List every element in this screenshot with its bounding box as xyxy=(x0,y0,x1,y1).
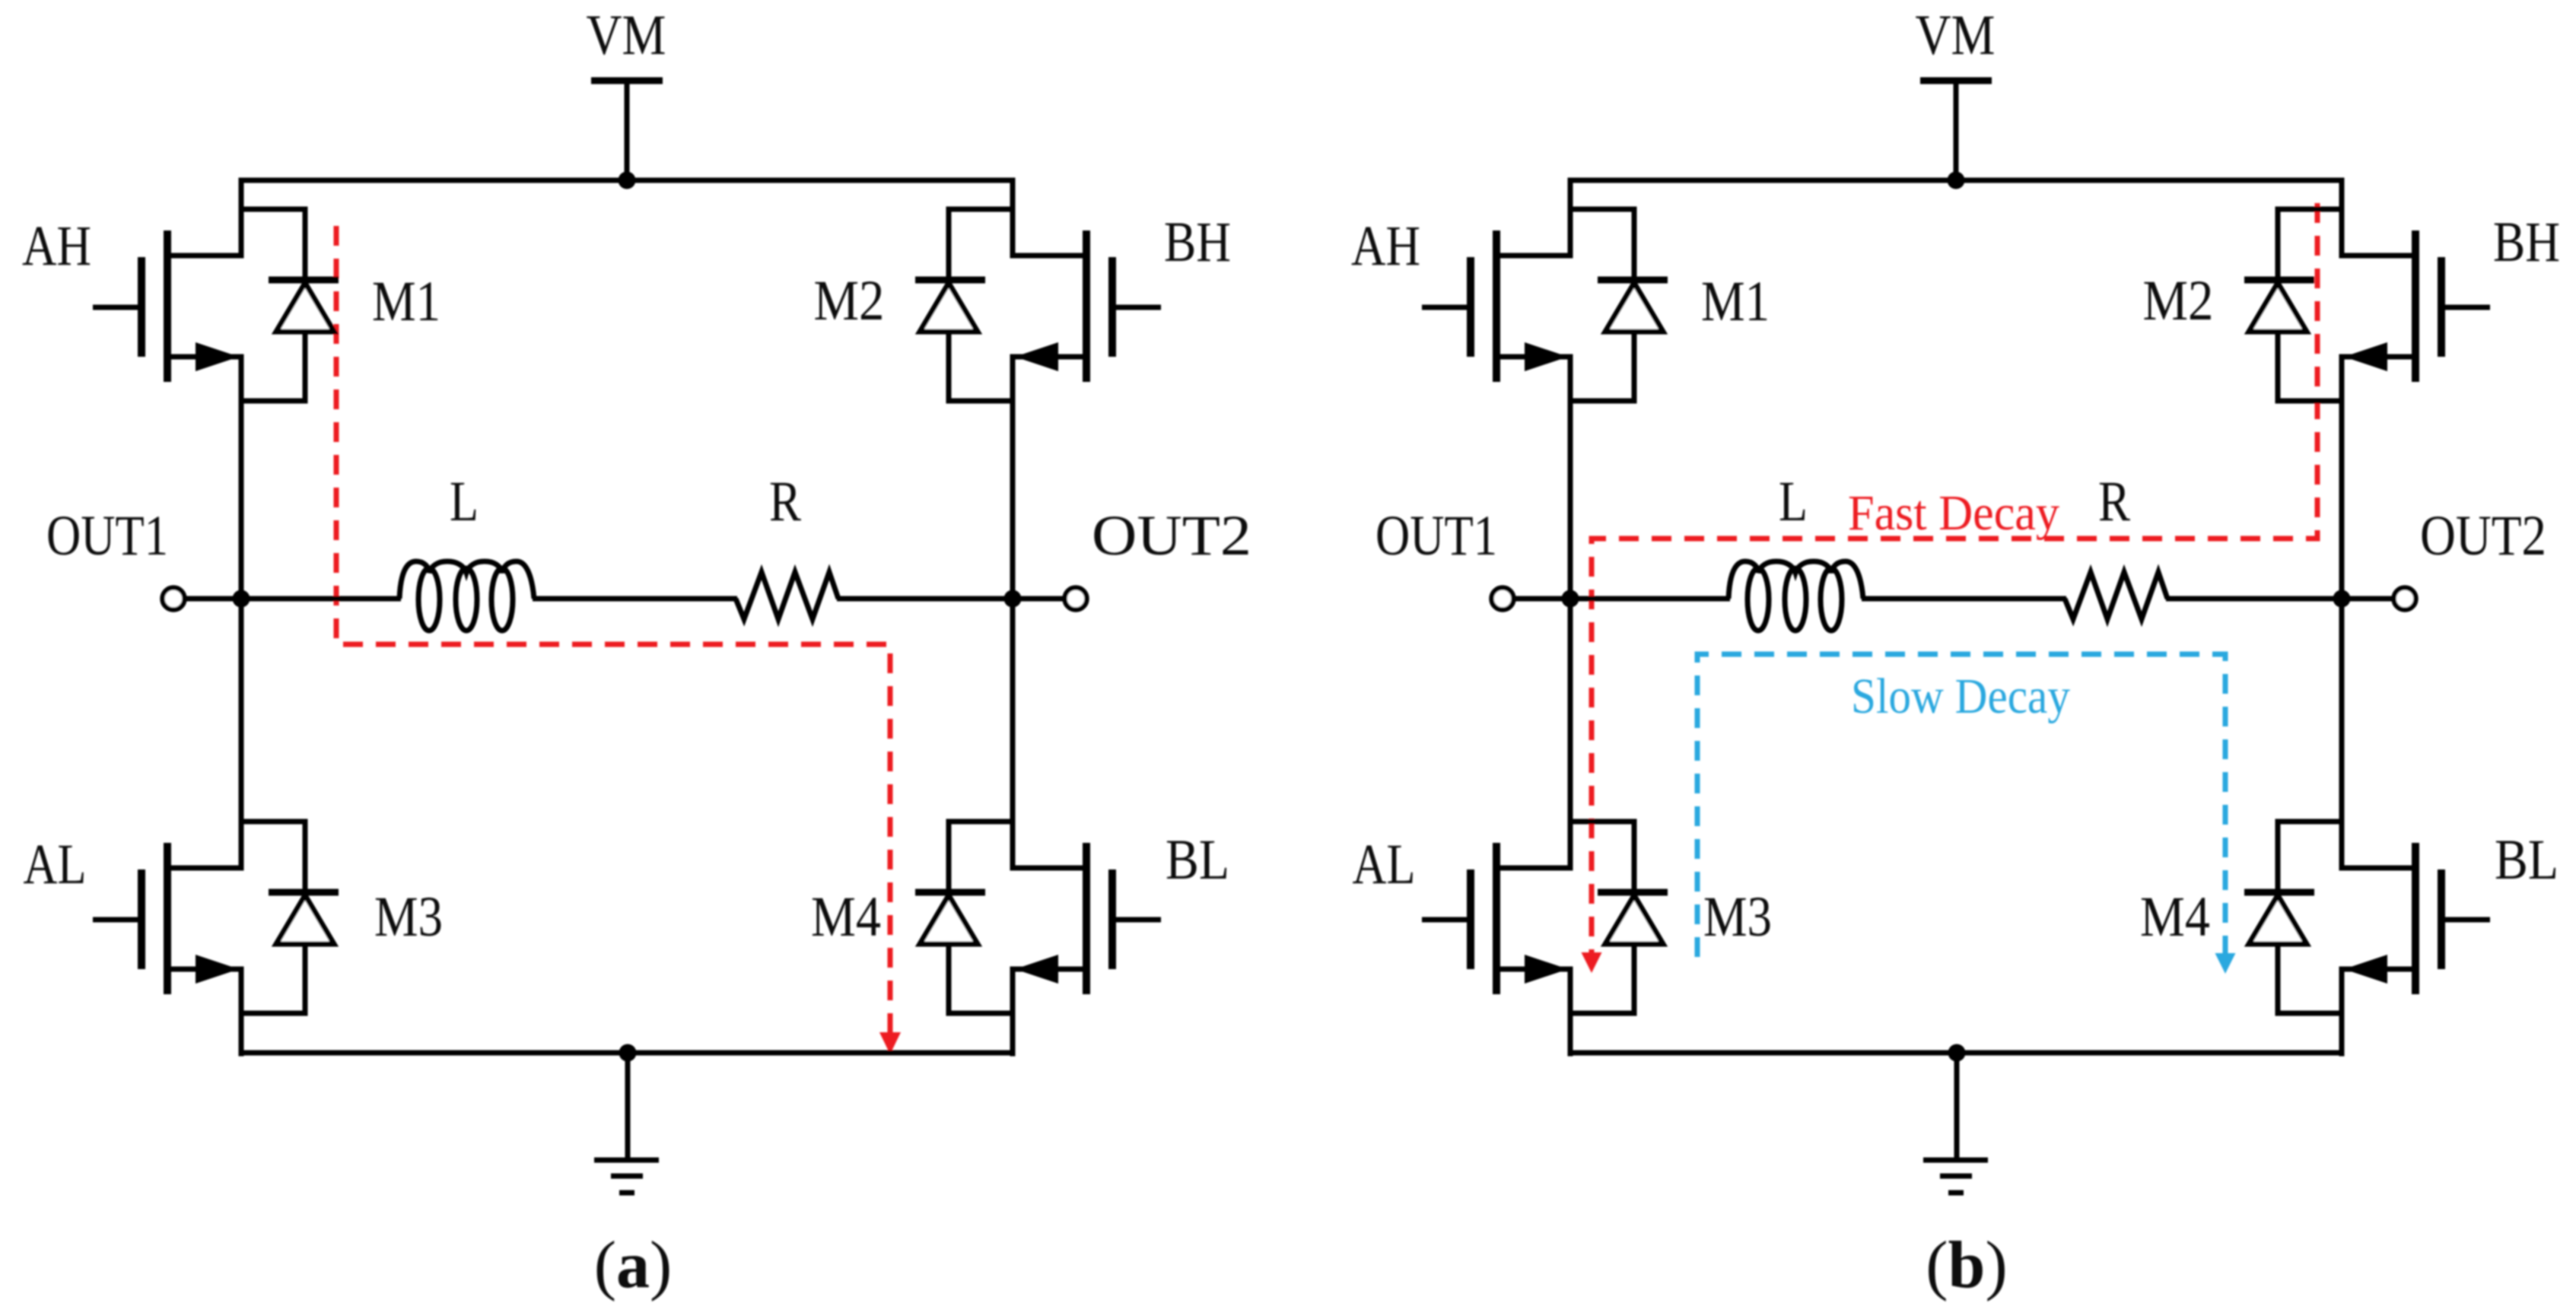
junction ground node (a) xyxy=(619,1044,637,1062)
transistor M2 (a) (NMOS with body diode) xyxy=(1010,230,1162,382)
svg-text:Slow Decay: Slow Decay xyxy=(1851,669,2070,724)
junction VM node (a) xyxy=(619,172,636,189)
wire right column upper (b) xyxy=(2339,178,2345,259)
current path red dashed (a) xyxy=(336,226,890,1032)
wire left column upper (b) xyxy=(1568,178,1573,259)
wire OUT1 to L (b) xyxy=(1570,596,1730,602)
body diode of M4 (a) xyxy=(915,819,1013,1016)
transistor M4 (b) (NMOS with body diode) xyxy=(2339,843,2491,994)
svg-text:M2: M2 xyxy=(2143,269,2214,332)
transistor M1 (a) (NMOS with body diode) xyxy=(93,230,244,382)
wire L to R (b) xyxy=(1862,596,2066,602)
svg-text:AH: AH xyxy=(22,215,91,278)
arrowhead red (b) xyxy=(1582,952,1602,973)
svg-text:M3: M3 xyxy=(374,885,443,949)
svg-text:M2: M2 xyxy=(814,269,885,332)
wire right column lower (b) xyxy=(2339,967,2345,1057)
svg-text:M4: M4 xyxy=(811,885,881,949)
svg-text:VM: VM xyxy=(587,4,666,67)
resistor R (a) xyxy=(736,572,838,619)
svg-text:BL: BL xyxy=(2495,828,2559,892)
wire left column upper (a) xyxy=(239,178,244,259)
body diode of M1 (b) xyxy=(1570,207,1668,404)
wire right column middle (b) xyxy=(2339,354,2345,871)
svg-text:BH: BH xyxy=(2493,211,2560,274)
transistor M3 (a) (NMOS with body diode) xyxy=(93,843,244,994)
transistor M3 (b) (NMOS with body diode) xyxy=(1422,843,1573,994)
svg-text:M1: M1 xyxy=(372,270,440,333)
svg-text:AL: AL xyxy=(1353,833,1416,896)
svg-text:R: R xyxy=(2098,470,2130,533)
svg-text:L: L xyxy=(1779,470,1808,533)
inductor L (b) xyxy=(1728,561,1863,631)
wire bottom rail (a) xyxy=(239,1051,1016,1056)
wire L to R (a) xyxy=(533,596,737,602)
svg-text:M3: M3 xyxy=(1703,885,1772,949)
wire right column upper (a) xyxy=(1010,178,1016,259)
svg-text:VM: VM xyxy=(1916,4,1996,67)
wire bottom rail (b) xyxy=(1568,1051,2345,1056)
inductor L (a) xyxy=(399,561,534,631)
svg-text:(a): (a) xyxy=(594,1229,673,1302)
junction ground node (b) xyxy=(1948,1044,1966,1062)
svg-text:L: L xyxy=(450,470,479,533)
svg-text:M4: M4 xyxy=(2140,885,2210,949)
svg-text:R: R xyxy=(769,470,801,533)
wire left column lower (b) xyxy=(1568,967,1573,1057)
VM supply symbol (b) xyxy=(1920,81,1992,183)
svg-text:Fast Decay: Fast Decay xyxy=(1848,485,2059,541)
svg-text:M1: M1 xyxy=(1701,270,1770,333)
wire OUT1 to L (a) xyxy=(241,596,401,602)
terminal OUT1 (b) xyxy=(1492,588,1573,610)
wire left column middle (a) xyxy=(239,354,244,871)
wire R to OUT2 (b) xyxy=(2166,596,2342,602)
wire R to OUT2 (a) xyxy=(837,596,1013,602)
wire top rail (a) xyxy=(239,178,1016,183)
transistor M2 (b) (NMOS with body diode) xyxy=(2339,230,2491,382)
arrowhead blue (b) xyxy=(2215,953,2236,974)
junction OUT1 node (a) xyxy=(233,590,250,608)
terminal OUT2 (b) xyxy=(2342,588,2416,610)
ground symbol (a) xyxy=(594,1053,659,1193)
terminal OUT2 (a) xyxy=(1013,588,1087,610)
resistor R (b) xyxy=(2065,572,2167,619)
transistor M1 (b) (NMOS with body diode) xyxy=(1422,230,1573,382)
VM supply symbol (a) xyxy=(591,81,663,183)
body diode of M1 (a) xyxy=(241,207,339,404)
svg-text:OUT2: OUT2 xyxy=(2420,504,2546,567)
svg-text:BH: BH xyxy=(1164,211,1231,274)
body diode of M3 (b) xyxy=(1570,819,1668,1016)
wire left column lower (a) xyxy=(239,967,244,1057)
terminal OUT1 (a) xyxy=(163,588,244,610)
arrowhead red (a) xyxy=(879,1032,901,1054)
body diode of M2 (b) xyxy=(2244,207,2342,404)
ground symbol (b) xyxy=(1923,1053,1988,1193)
svg-text:BL: BL xyxy=(1166,828,1229,892)
transistor M4 (a) (NMOS with body diode) xyxy=(1010,843,1162,994)
wire right column lower (a) xyxy=(1010,967,1016,1057)
junction VM node (b) xyxy=(1948,172,1965,189)
current path red dashed Fast Decay (b) xyxy=(1592,203,2317,952)
body diode of M3 (a) xyxy=(241,819,339,1016)
svg-text:AH: AH xyxy=(1351,215,1420,278)
junction OUT1 node (b) xyxy=(1562,590,1579,608)
wire top rail (b) xyxy=(1568,178,2345,183)
svg-text:OUT1: OUT1 xyxy=(1375,504,1497,567)
svg-text:OUT2: OUT2 xyxy=(1092,504,1251,567)
wire left column middle (b) xyxy=(1568,354,1573,871)
svg-text:(b): (b) xyxy=(1926,1229,2008,1302)
current path blue dashed Slow Decay (b) xyxy=(1697,654,2225,957)
body diode of M4 (b) xyxy=(2244,819,2342,1016)
junction OUT2 node (b) xyxy=(2333,590,2351,608)
svg-text:AL: AL xyxy=(24,833,87,896)
wire right column middle (a) xyxy=(1010,354,1016,871)
body diode of M2 (a) xyxy=(915,207,1013,404)
junction OUT2 node (a) xyxy=(1004,590,1022,608)
svg-text:OUT1: OUT1 xyxy=(46,504,168,567)
